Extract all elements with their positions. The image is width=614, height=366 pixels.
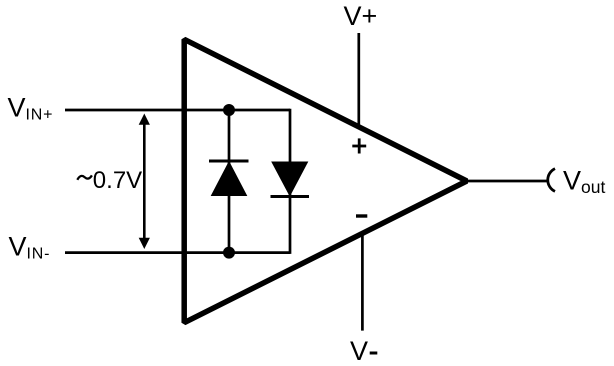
pin - (inverting input marker) xyxy=(356,214,367,217)
diode D1 (anode bottom, cathode top) xyxy=(209,161,249,196)
svg-text:V: V xyxy=(350,336,368,366)
value label ~0.7V xyxy=(77,175,92,179)
wire left diode branch xyxy=(228,110,231,253)
svg-text:0.7V: 0.7V xyxy=(93,167,142,194)
svg-text:VIN-: VIN- xyxy=(9,231,51,262)
output terminal arc xyxy=(548,169,555,192)
diode D2 (anode top, cathode bottom) xyxy=(271,162,310,197)
wire right diode branch xyxy=(289,109,292,254)
wire V+ supply xyxy=(357,33,360,128)
svg-text:VIN+: VIN+ xyxy=(8,92,54,123)
pin + (non-inverting input marker) xyxy=(352,138,366,153)
op-amp U1 xyxy=(184,39,467,322)
svg-text:Vout: Vout xyxy=(563,166,605,197)
node junction V_IN- / diode branch xyxy=(223,247,235,259)
wire V_IN+ input (horizontal) xyxy=(65,109,290,112)
node junction V_IN+ / diode branch xyxy=(223,104,235,116)
wire output xyxy=(467,180,547,183)
wire V- supply xyxy=(361,234,364,331)
wire V_IN- input (horizontal) xyxy=(65,251,290,254)
svg-text:V+: V+ xyxy=(344,1,378,31)
measurement arrow ~0.7V (double-headed) xyxy=(139,114,150,250)
